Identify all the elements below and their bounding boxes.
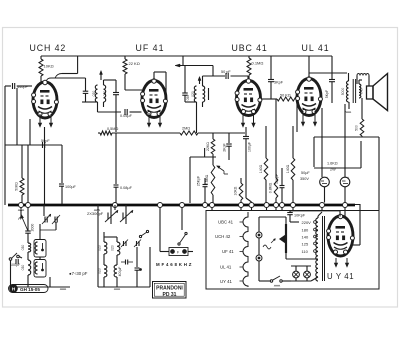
svg-text:UL 41: UL 41 [302,43,330,53]
svg-text:+: + [326,176,328,180]
svg-text:UF 41: UF 41 [222,249,234,254]
svg-text:2X300pF: 2X300pF [87,211,104,216]
svg-text:50pF: 50pF [41,139,50,143]
svg-text:25KpF: 25KpF [197,176,201,186]
svg-text:2W: 2W [330,168,336,172]
svg-text:5KpF: 5KpF [325,90,329,98]
svg-text:0.05μF: 0.05μF [120,114,133,118]
svg-text:0.08μF: 0.08μF [120,186,133,190]
svg-text:140Ω: 140Ω [259,164,263,173]
svg-text:50 KΩ: 50 KΩ [280,94,291,98]
svg-text:50μF: 50μF [301,171,310,175]
svg-text:10KpF: 10KpF [294,214,306,218]
svg-text:020: 020 [103,91,107,97]
svg-text:350V: 350V [300,177,309,181]
svg-text:1.6KΩ: 1.6KΩ [327,162,338,166]
svg-text:020: 020 [111,245,115,251]
svg-text:UBC 41: UBC 41 [218,220,234,225]
svg-text:22 KΩ: 22 KΩ [129,61,140,66]
svg-text:PD 31: PD 31 [163,292,177,298]
svg-text:10KΩ: 10KΩ [234,186,238,195]
svg-text:F: F [177,251,179,255]
svg-text:●7÷30 pF: ●7÷30 pF [69,271,88,276]
svg-text:50 pF: 50 pF [221,70,231,74]
svg-text:020: 020 [98,268,102,274]
svg-text:UL 41: UL 41 [220,265,232,270]
svg-text:22KΩ: 22KΩ [206,142,210,151]
svg-text:100μF: 100μF [65,185,77,189]
svg-text:2000: 2000 [31,224,35,232]
svg-text:020: 020 [98,245,102,251]
svg-text:500: 500 [355,125,359,131]
svg-text:0.8MΩ: 0.8MΩ [269,182,273,193]
svg-text:100pF: 100pF [10,263,21,267]
svg-text:10KΩ: 10KΩ [44,64,54,69]
svg-text:0.5MΩ: 0.5MΩ [205,174,209,185]
svg-text:020: 020 [191,91,195,97]
svg-text:UBC 41: UBC 41 [232,43,268,53]
svg-text:125: 125 [302,242,309,247]
svg-text:U Y 41: U Y 41 [327,272,354,281]
svg-text:110: 110 [302,249,309,254]
svg-text:100μF: 100μF [248,142,252,152]
svg-text:5000: 5000 [341,88,345,96]
svg-text:UF 41: UF 41 [136,43,165,53]
svg-text:140Ω: 140Ω [286,164,290,173]
svg-text:030: 030 [21,245,25,251]
svg-text:220V: 220V [302,220,312,225]
svg-text:M F 4 6 8 K H Z: M F 4 6 8 K H Z [156,262,192,267]
svg-text:020: 020 [92,91,96,97]
svg-text:UCH 42: UCH 42 [215,234,231,239]
svg-text:180: 180 [302,228,309,233]
svg-text:0.1MΩ: 0.1MΩ [252,61,264,66]
svg-text:UCH 42: UCH 42 [30,43,67,53]
svg-text:50KΩ: 50KΩ [15,182,19,191]
svg-text:050: 050 [186,95,190,101]
svg-text:2MΩ: 2MΩ [182,127,190,131]
svg-text:5KpF: 5KpF [274,81,284,85]
svg-text:400μF: 400μF [118,267,122,277]
svg-text:150pF: 150pF [275,174,279,184]
svg-text:2KpF: 2KpF [223,143,227,151]
svg-text:030: 030 [21,265,25,271]
svg-text:UY 41: UY 41 [220,279,232,284]
svg-text:H: H [12,286,15,291]
svg-text:+: + [347,176,349,180]
svg-text:GH 15-05: GH 15-05 [20,287,40,292]
svg-text:PRANDONI: PRANDONI [156,286,183,292]
svg-text:440pF: 440pF [17,85,28,89]
svg-text:140: 140 [302,235,309,240]
svg-text:0.5MΩ: 0.5MΩ [107,127,118,131]
svg-text:040: 040 [360,88,364,94]
